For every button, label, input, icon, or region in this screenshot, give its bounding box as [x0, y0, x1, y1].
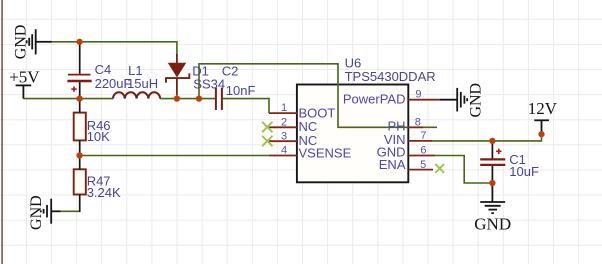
wire VIN net [432, 134, 542, 141]
svg-text:GND: GND [28, 195, 45, 230]
resistor R47 [74, 169, 86, 194]
svg-text:GND: GND [13, 25, 30, 60]
junction node [196, 95, 202, 101]
power 12V port [534, 120, 549, 134]
svg-text:1: 1 [281, 102, 287, 114]
junction node [76, 95, 82, 101]
diode D1 SS34 [166, 54, 189, 95]
ground GND at pin 9 [440, 88, 467, 112]
pin 4 VSENSE [269, 155, 297, 157]
no-connect X pin 5 [435, 164, 444, 173]
junction node [76, 152, 82, 158]
pin 3 NC [269, 140, 297, 142]
svg-text:SS34: SS34 [193, 77, 225, 92]
pin 5 ENA [408, 169, 433, 171]
IC U6 TPS5430DDAR body [297, 85, 408, 183]
wire [51, 42, 177, 56]
wire [160, 98, 215, 100]
wire [223, 99, 269, 114]
svg-text:3: 3 [281, 130, 287, 142]
wire [23, 98, 113, 100]
svg-text:8: 8 [415, 116, 421, 128]
svg-text:C2: C2 [222, 64, 239, 79]
junction node [489, 180, 495, 186]
svg-text:7: 7 [420, 130, 426, 142]
junction node [489, 138, 495, 144]
capacitor C2 [216, 88, 222, 110]
svg-text:ENA: ENA [379, 157, 406, 172]
svg-text:5: 5 [420, 159, 426, 171]
svg-text:NC: NC [299, 119, 318, 134]
svg-text:15uH: 15uH [127, 76, 158, 91]
ground GND top-left [27, 29, 52, 54]
svg-text:+5V: +5V [9, 68, 40, 87]
svg-text:10K: 10K [87, 129, 110, 144]
no-connect X pin 2 [262, 122, 272, 132]
wire VSENSE net [80, 155, 269, 157]
svg-text:C4: C4 [95, 62, 112, 77]
svg-text:GND: GND [474, 214, 511, 233]
junction node [538, 131, 544, 137]
pin 1 BOOT [269, 112, 297, 114]
no-connect X pin 3 [262, 136, 272, 146]
wire [176, 94, 178, 99]
ground GND bottom-left [41, 199, 61, 224]
svg-text:2: 2 [281, 116, 287, 128]
wire R46 leads [79, 99, 81, 213]
svg-text:6: 6 [420, 145, 426, 157]
power +5V port [16, 85, 32, 98]
svg-text:PowerPAD: PowerPAD [343, 91, 406, 106]
svg-text:TPS5430DDAR: TPS5430DDAR [345, 69, 436, 84]
svg-text:GND: GND [468, 83, 485, 118]
capacitor C4 [67, 42, 91, 99]
svg-text:10uF: 10uF [509, 164, 539, 179]
ground GND bottom-center [480, 183, 505, 213]
resistor R46 [74, 113, 86, 141]
capacitor C1 [480, 141, 505, 183]
pin 7 VIN [408, 140, 432, 142]
pin 9 PowerPAD [408, 99, 440, 101]
svg-text:4: 4 [281, 145, 287, 157]
pin 6 GND [408, 155, 435, 157]
svg-text:3.24K: 3.24K [87, 185, 121, 200]
junction node [76, 39, 82, 45]
svg-text:10nF: 10nF [226, 83, 256, 98]
junction node [174, 95, 180, 101]
svg-text:12V: 12V [528, 99, 558, 118]
pin 8 PH [408, 126, 423, 128]
wire GND pin6 net [435, 156, 492, 184]
wire R47 to ground [61, 210, 80, 212]
svg-text:220uF: 220uF [95, 76, 132, 91]
pin 2 NC [269, 126, 297, 128]
wire PH net [199, 64, 437, 128]
svg-text:VSENSE: VSENSE [299, 146, 352, 161]
inductor L1 [113, 92, 160, 98]
svg-text:9: 9 [415, 89, 421, 101]
